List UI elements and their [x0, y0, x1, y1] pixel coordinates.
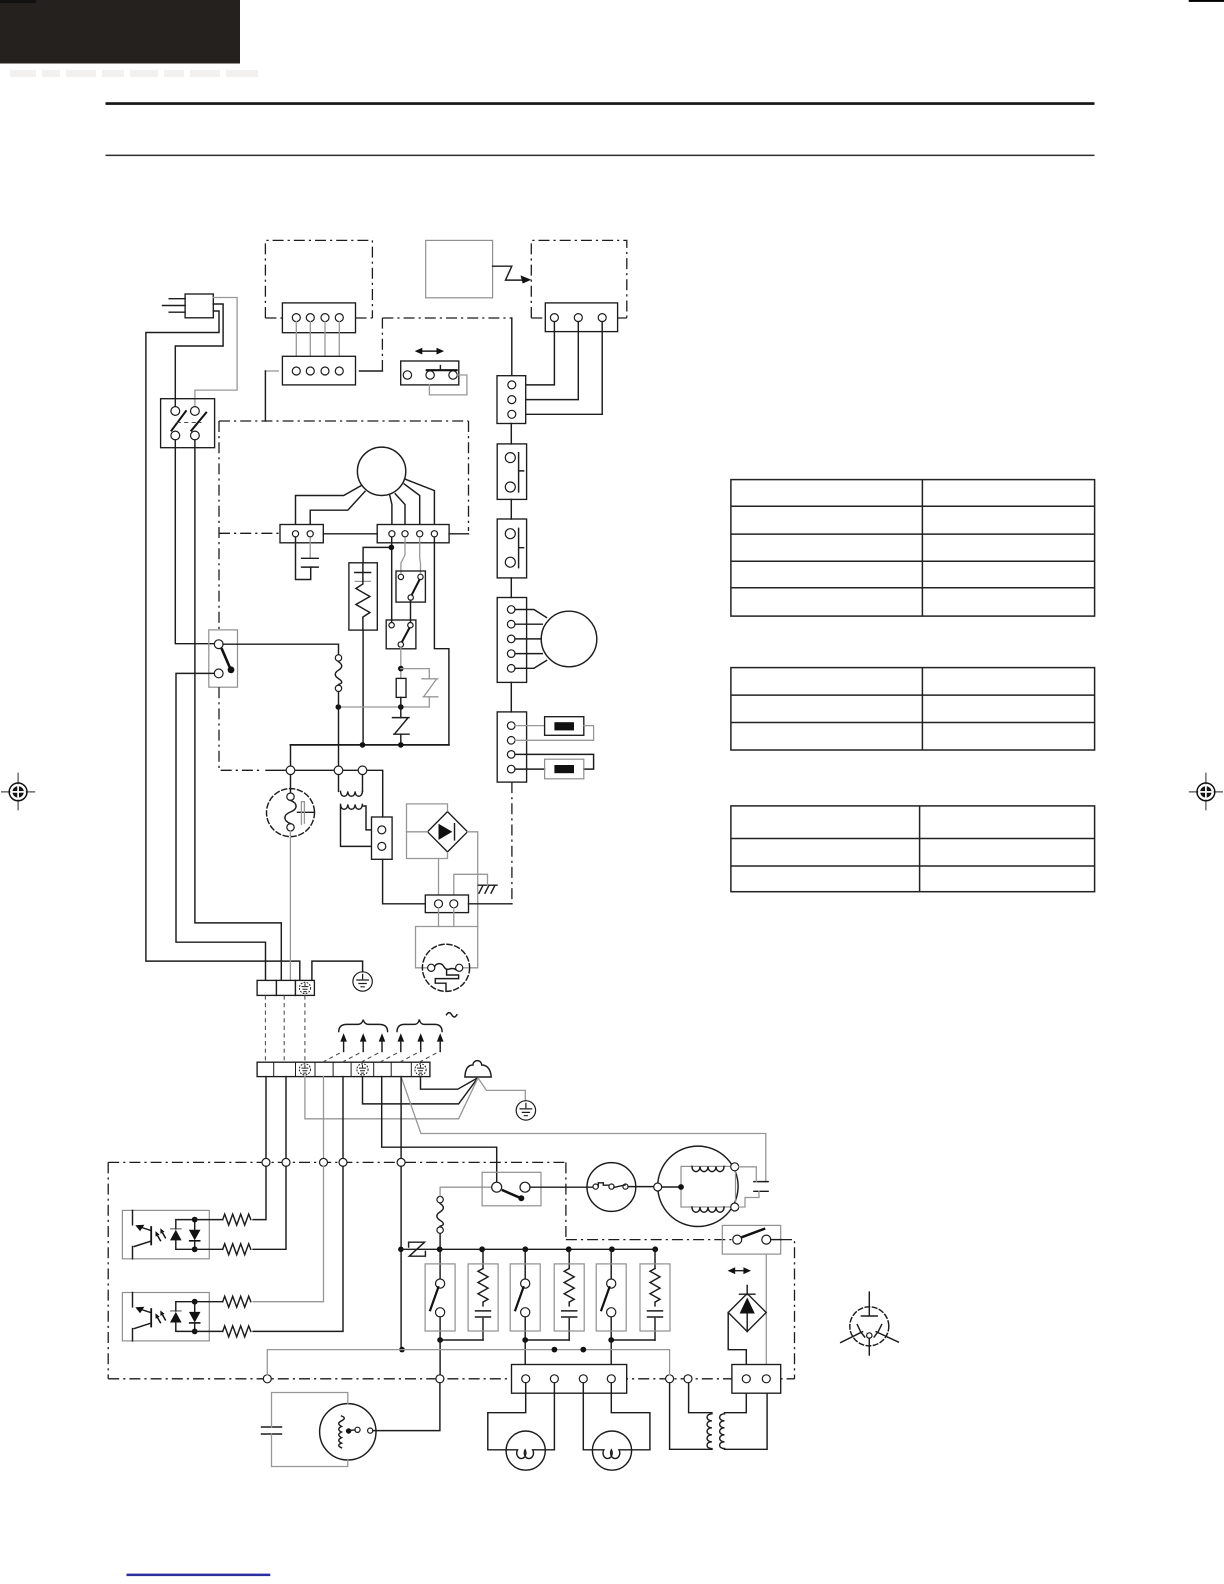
chassis ground 777: [479, 885, 498, 893]
wire CN6 pin2 to lamp L1: [545, 1383, 554, 1450]
wire thermostat to fan motor FM: [628, 1186, 654, 1188]
wire TS2 to fan capacitor (run): [401, 1077, 766, 1182]
wire monitor bottom to mains: [176, 673, 266, 980]
wires CN3 to CN8: [516, 322, 602, 415]
wire CN5 right to chassis: [469, 903, 512, 905]
interlock switch SW1: [401, 361, 459, 385]
fan lead 3: [390, 496, 392, 530]
relay RL1: [482, 1172, 541, 1206]
chassis dash-dot drop to HV connector: [511, 782, 513, 904]
earth symbol ES2: [516, 1101, 535, 1120]
connector CN7 (2-pin): [732, 1365, 781, 1394]
wire SW1 loop: [429, 375, 467, 395]
bridge rectifier D2: [728, 1294, 766, 1332]
connector CN10 (4-pin fuse block): [497, 712, 526, 782]
motor M2: [541, 611, 597, 667]
top-right corner mark: [1189, 0, 1224, 2]
wire Z1 bottom link: [428, 697, 430, 707]
transformer T2 primary: [689, 1383, 712, 1413]
wire D2 left lead to CN7: [728, 1313, 746, 1375]
wire HV bus left drop: [290, 745, 292, 766]
fan motor M1: [357, 447, 405, 495]
node circles on boundary (bottom): [263, 1375, 271, 1383]
terminal block TB1 (2-pin): [280, 525, 323, 543]
door switch A: [497, 444, 526, 500]
door switch B: [497, 519, 526, 578]
harness drops TS2 to control board: [265, 1077, 267, 1159]
varistor Z2: [393, 718, 410, 735]
wire node to relay bus: [400, 1166, 402, 1349]
wire plug to DPDT (gray): [195, 298, 237, 407]
wire SB2 down to resistor: [400, 647, 402, 678]
fuse F2: [545, 759, 584, 779]
wire branch to varistor Z1: [401, 669, 430, 679]
chassis dash-dot rail (upper): [382, 318, 511, 371]
registration mark left: [1, 773, 35, 811]
bridge rectifier D1: [428, 812, 468, 852]
wire D1 dc loop: [407, 804, 448, 859]
power plug: [185, 294, 213, 318]
earth symbol ES1: [353, 972, 372, 991]
wire earth bond to ES1: [312, 961, 363, 980]
snubber RC2: [554, 1249, 584, 1340]
wire D1 ac right: [468, 832, 478, 927]
transformer T1 secondary: [341, 804, 363, 809]
connector CN4 (2-pin): [372, 817, 393, 859]
resistor R4: [223, 1326, 251, 1337]
wire TF1 down: [338, 692, 340, 766]
wire CN8 to door switch A: [510, 424, 512, 444]
fan capacitor: [309, 538, 311, 559]
wire TS2 earth2 to bushing: [363, 1077, 478, 1104]
connector CN1 (4-pin): [282, 303, 355, 333]
wire monitor top to thermal fuse: [223, 644, 338, 654]
fan lead 2: [310, 491, 365, 529]
connector CN9 (5-pin): [497, 598, 526, 683]
chassis dash-dot left drop x219: [218, 421, 220, 630]
wire to fuse F2: [515, 754, 594, 769]
wire CN6 pin4 to lamp L2: [611, 1383, 650, 1450]
snubber RC3: [640, 1249, 670, 1340]
wire TF2 to relay RL1: [440, 1187, 492, 1196]
curly brace 1: [339, 1020, 388, 1032]
gray low-voltage bus: [267, 1350, 669, 1375]
wire CN9 to CN10: [510, 682, 512, 712]
relay switch K2: [510, 1249, 540, 1340]
registration mark right: [1189, 773, 1223, 811]
relay RL2: [722, 1225, 780, 1254]
node circles on boundary (top): [262, 1158, 270, 1166]
wire CN6 pin1 to lamp L1: [488, 1383, 526, 1450]
wire CN6 pin3 to lamp L2: [583, 1383, 592, 1450]
wire gray bus y707: [338, 706, 429, 708]
magnetron MG1: [267, 789, 315, 837]
fan lead 6: [405, 479, 434, 530]
fan lead 4: [395, 494, 405, 530]
wire switch B to CN9: [510, 578, 512, 598]
tilde symbol: [447, 1013, 457, 1017]
wire K2-RC2 pair link: [525, 1339, 569, 1341]
transformer T2 secondary: [720, 1414, 725, 1449]
table 1: [731, 480, 1095, 616]
wire TS2 to relay RL1: [382, 1077, 497, 1183]
wire switch A to switch B: [510, 499, 512, 519]
wire DPDT left pole down: [175, 440, 214, 644]
connector CN6 (4-pin): [512, 1365, 627, 1394]
wire node to R4: [253, 1166, 343, 1331]
wire bushing to earth ES2: [478, 1078, 525, 1100]
FM winding bottom: [692, 1207, 724, 1212]
terminal block TB2 (4-pin): [377, 525, 449, 543]
header black block: [0, 0, 240, 64]
monitor switch: [209, 630, 238, 687]
control unit gray box: [426, 240, 493, 297]
dash-dot enclosure box 2 (top right unit): [531, 240, 627, 318]
wires CN1 to CN2: [296, 322, 339, 367]
fan motor FM: [658, 1146, 738, 1226]
table 3: [731, 806, 1095, 892]
wire CN2 right to chassis rail: [360, 370, 383, 372]
dash-dot enclosure box 1 (top left unit): [265, 240, 372, 318]
wire timer cap loop: [272, 1393, 348, 1428]
timer motor TM: [320, 1404, 376, 1460]
fan lead 5: [404, 484, 420, 530]
resistor R5: [396, 678, 406, 697]
resistor R2: [223, 1244, 251, 1255]
second rule thin: [106, 155, 1095, 157]
relay bus: [401, 1248, 655, 1250]
wire TB1-TB2: [323, 533, 377, 535]
timer capacitor C3: [262, 1427, 282, 1434]
wire RL2 coil side (gray): [765, 1254, 767, 1375]
optocoupler OC2: [122, 1293, 222, 1341]
wire SB1 to SB2: [410, 600, 412, 622]
connector CN3 (3-pin): [545, 303, 617, 332]
HV connector CN5: [425, 895, 468, 913]
wires CN9 to motor M2: [515, 610, 547, 669]
transformer T1 primary: [339, 775, 363, 792]
wire DPDT right pole down: [195, 440, 281, 981]
curly brace 2: [397, 1020, 442, 1032]
double arrow (interlock travel): [419, 350, 441, 352]
wire plug mains run left: [146, 311, 300, 980]
wire TB2 pin2 to relay SB1: [401, 538, 405, 573]
resistor R1: [223, 1214, 251, 1225]
oven lamp L2: [592, 1431, 631, 1470]
connector CN8 (3-pin vertical): [497, 376, 526, 424]
wire K3 to CN6 pin4: [610, 1340, 612, 1375]
wire D1 to CN5 pin1: [438, 859, 440, 900]
noise filter Z3: [409, 1242, 426, 1256]
wire K1-RC1 pair link: [440, 1339, 483, 1341]
fan lead 1: [296, 486, 361, 530]
wire K1 to node: [439, 1340, 441, 1375]
thermal fuse TF1: [335, 655, 341, 661]
connector CN2 (4-pin): [282, 356, 355, 385]
junction: [389, 545, 395, 551]
double arrow (relay travel): [731, 1270, 747, 1272]
wire node A to transformer T2: [670, 1383, 712, 1450]
wire R5 to Z2: [400, 697, 402, 717]
oven lamp L1: [506, 1431, 545, 1470]
wire K3-RC3 pair link: [611, 1339, 655, 1341]
relay switch K1: [425, 1249, 455, 1340]
wires CN5 to MG2: [439, 908, 454, 927]
DPDT line switch: [161, 399, 215, 448]
wire CN4 to HV connector: [383, 859, 426, 904]
faded ghost text row: [10, 70, 258, 77]
wire K2 to CN6 pin1: [524, 1340, 526, 1375]
wire TS2 earth3 to bushing: [421, 1077, 478, 1090]
earth symbols in TS2: [299, 1064, 426, 1075]
wire TB2 pin3 to relay SB1: [419, 538, 422, 573]
control board dash-dot boundary: [108, 1162, 794, 1378]
thermostat TH1: [587, 1163, 636, 1212]
wire RL1 to thermostat: [530, 1186, 593, 1188]
snubber RC1: [468, 1249, 498, 1340]
phase arrows group: [323, 1033, 444, 1062]
wire node to R3: [253, 1166, 323, 1301]
chassis dash-dot right drop x468.5: [468, 421, 470, 531]
magnetron tube symbol (legend): [841, 1292, 899, 1355]
bottom blue footer line: [127, 1574, 271, 1577]
top rule thick: [106, 102, 1095, 105]
heater (oven lamp/heater unit): [349, 563, 377, 630]
cord bushing symbol: [465, 1061, 491, 1077]
dashed harness wires TS1 to TS2: [265, 995, 305, 1062]
HV terminal row: [266, 770, 383, 817]
chassis branch to fan terminal block: [219, 532, 280, 534]
chassis dash-dot rail y421: [219, 420, 469, 422]
resistor R3: [223, 1296, 251, 1307]
wire Z2 to HV bus: [400, 734, 402, 745]
earth symbol in TS1: [299, 982, 310, 993]
wire node to R1: [253, 1166, 266, 1219]
table 2: [731, 668, 1095, 750]
wire rail to CN8: [511, 318, 513, 376]
wire TB2 to chassis rail: [449, 533, 468, 535]
wire MG1 filament down: [289, 831, 291, 981]
wire F1 loop back: [515, 726, 594, 741]
HV bus: [291, 744, 449, 746]
relay contact SB2: [386, 620, 416, 649]
wire timer contact to node: [373, 1383, 440, 1431]
wire TS2 earth1 to bushing: [305, 1077, 478, 1119]
thermal cutout TF2: [437, 1196, 443, 1202]
optocoupler OC1: [122, 1210, 222, 1258]
wire plug to DPDT (black): [175, 304, 223, 407]
chassis dash-dot drop below monitor: [219, 687, 262, 770]
wire RL2 right drop (chassis): [771, 1239, 781, 1241]
terminal strip TS2: [257, 1062, 430, 1076]
wire to fuse F1: [515, 725, 545, 727]
relay switch K3: [596, 1249, 626, 1340]
fan capacitor C2: [754, 1182, 768, 1192]
relay contact SB1: [396, 571, 425, 602]
wire left drop to rail: [264, 371, 266, 421]
wire CN2 left stub: [265, 370, 278, 372]
wire heater down to HV bus: [362, 630, 364, 745]
magnetron MG2: [422, 944, 469, 991]
varistor Z1: [422, 679, 438, 697]
wire T1 secondary to CN4: [341, 806, 378, 846]
wire TB2 pin1 to heater: [363, 538, 392, 623]
lightning arrow to unit 2: [493, 266, 523, 280]
wire D1 ac left: [407, 831, 428, 833]
wire TB2 pin4 to HV bus: [434, 538, 449, 745]
wire node to R2: [253, 1166, 286, 1249]
magnetron MG2 filament loop (gray): [416, 927, 478, 968]
fuse F1: [545, 717, 584, 736]
earth terminal strip TS1: [257, 980, 314, 995]
FM winding top: [692, 1166, 724, 1171]
